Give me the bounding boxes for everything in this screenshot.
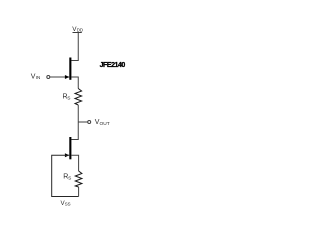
wire VIN to Q1 gate	[50, 76, 69, 78]
transistor Q1 channel bar (JFET)	[69, 58, 71, 80]
terminal VOUT	[88, 121, 91, 124]
wire Q2 gate loop to VSS rail	[52, 155, 79, 196]
net label VSS	[61, 200, 71, 207]
svg-text:S: S	[67, 96, 70, 102]
svg-text:S: S	[68, 175, 71, 181]
label RS (upper)	[63, 93, 71, 101]
svg-text:OUT: OUT	[100, 121, 110, 127]
svg-text:SS: SS	[65, 201, 71, 206]
wire Q2 source to RS	[71, 155, 78, 171]
Q1 gate arrow	[65, 75, 69, 79]
VOUT tap wire	[78, 121, 87, 123]
label RS (lower)	[63, 173, 71, 181]
net label VDD	[72, 26, 83, 33]
transistor Q2 channel bar (JFET)	[69, 137, 71, 159]
wire RS to VOUT node to Q2 drain	[71, 105, 78, 140]
VDD rail T-bar terminal	[73, 32, 82, 34]
net label VIN	[31, 73, 40, 80]
wire Q1 source to RS	[71, 77, 78, 89]
resistor RS (upper zigzag)	[75, 89, 82, 106]
Q2 gate arrow	[65, 153, 69, 157]
resistor RS (lower zigzag)	[75, 171, 82, 187]
svg-text:JFE2140: JFE2140	[100, 62, 126, 69]
wire VDD to Q1 drain	[71, 33, 78, 61]
svg-text:IN: IN	[36, 75, 41, 80]
net label VOUT	[95, 119, 110, 127]
svg-text:DD: DD	[77, 28, 83, 33]
terminal VIN	[47, 76, 50, 79]
wire RS to VSS rail	[78, 187, 80, 197]
